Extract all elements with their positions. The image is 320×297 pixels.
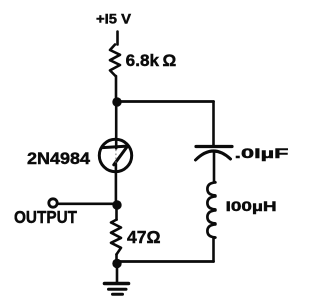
svg-text:+I5 V: +I5 V — [96, 12, 132, 27]
svg-text:47Ω: 47Ω — [127, 227, 161, 247]
svg-text:2N4984: 2N4984 — [27, 150, 91, 168]
svg-text:6.8k Ω: 6.8k Ω — [126, 51, 177, 70]
svg-text:I00µH: I00µH — [226, 199, 277, 214]
svg-text:.0IµF: .0IµF — [235, 146, 289, 161]
svg-text:OUTPUT: OUTPUT — [14, 207, 77, 227]
